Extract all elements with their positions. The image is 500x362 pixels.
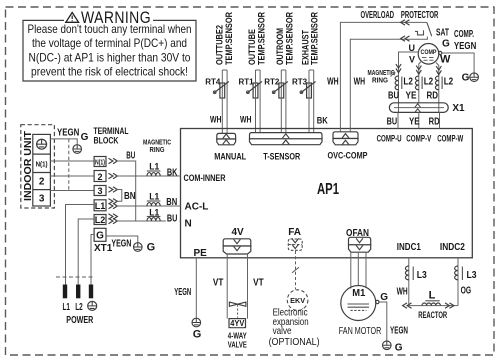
svg-text:G: G — [380, 292, 388, 303]
svg-text:G: G — [442, 38, 450, 49]
wire OVC to protector (bottom lead, WH) — [350, 37, 427, 132]
power lead ground — [89, 285, 93, 299]
wire dashed drop — [68, 139, 70, 191]
wire OVC to protector (top lead, WH) — [340, 22, 427, 131]
svg-text:2: 2 — [97, 172, 102, 182]
wire BU from N(1) — [116, 161, 136, 221]
svg-text:YEGN: YEGN — [390, 325, 408, 336]
junction chevrons XT1 L1 — [109, 199, 118, 204]
svg-text:COMP-W: COMP-W — [437, 134, 463, 144]
mainboard AP1 box — [181, 129, 473, 258]
svg-text:BLOCK: BLOCK — [94, 135, 119, 145]
svg-text:FA: FA — [288, 227, 301, 238]
wire dashed field boundary — [56, 276, 93, 278]
svg-text:PROTECTOR: PROTECTOR — [401, 10, 439, 21]
svg-text:X1: X1 — [452, 103, 465, 114]
svg-text:M1: M1 — [352, 288, 365, 299]
wire V phase (YE) — [419, 61, 422, 104]
svg-text:L2: L2 — [95, 215, 106, 225]
svg-text:N(DC-) at AP1 is higher than 3: N(DC-) at AP1 is higher than 30V to — [29, 51, 191, 65]
thermal protector SAT — [415, 22, 449, 38]
svg-text:4YV: 4YV — [230, 319, 245, 328]
svg-text:WH: WH — [397, 286, 408, 297]
svg-text:G: G — [193, 329, 202, 341]
svg-text:SAT: SAT — [436, 28, 449, 39]
ground (indoor YEGN) — [73, 145, 82, 154]
svg-text:(OPTIONAL): (OPTIONAL) — [269, 336, 320, 348]
svg-text:BU: BU — [126, 151, 135, 162]
thermistor RT4 — [220, 83, 225, 98]
wire XT1 G to ground — [106, 236, 138, 243]
svg-text:W: W — [440, 54, 451, 66]
svg-text:L2: L2 — [75, 302, 83, 313]
svg-text:BU: BU — [387, 116, 398, 127]
svg-text:BN: BN — [166, 197, 177, 208]
svg-text:RT2: RT2 — [264, 78, 280, 87]
svg-text:L1: L1 — [95, 201, 106, 211]
junction chevrons XT1 L2 — [109, 214, 118, 219]
wire BN bracket 3 to L1 — [116, 190, 122, 202]
sensor RT3 EXHAUST TEMP.SENSOR — [292, 12, 328, 133]
connector OFAN — [346, 228, 371, 252]
svg-text:N(1): N(1) — [36, 161, 48, 168]
wire X1 to AP1 (YE) — [418, 112, 420, 128]
wire indoor ground — [50, 139, 77, 144]
wire indoor 3 to XT1 — [50, 190, 94, 192]
ground (fan motor) — [383, 341, 392, 350]
wire INDC2 — [457, 258, 459, 306]
wire indoor 2 to XT1 — [50, 175, 94, 177]
wire G to power ground — [91, 235, 94, 285]
svg-text:AP1: AP1 — [317, 181, 339, 198]
svg-text:3: 3 — [97, 186, 102, 196]
inductor L1 (N wire) — [147, 207, 161, 221]
svg-text:TEMP.SENSOR: TEMP.SENSOR — [224, 12, 234, 65]
inductor L1 (COM wire) — [147, 161, 161, 176]
svg-text:WH: WH — [210, 115, 222, 125]
svg-text:AC-L: AC-L — [185, 201, 209, 212]
wire VT left rail — [226, 254, 228, 319]
svg-text:RD: RD — [429, 116, 440, 127]
svg-text:XT1: XT1 — [94, 243, 113, 254]
svg-text:YEGN: YEGN — [454, 41, 476, 52]
connector FA — [288, 227, 302, 250]
wire INDC1 — [408, 258, 410, 306]
svg-text:2: 2 — [39, 177, 45, 188]
reactor L — [403, 290, 454, 309]
svg-text:COMP.: COMP. — [454, 29, 474, 40]
svg-text:L2: L2 — [424, 77, 434, 88]
inductor L1 (AC-L wire) — [147, 191, 161, 206]
wire reactor bottom — [409, 305, 458, 307]
svg-text:G: G — [147, 242, 156, 254]
svg-text:L2: L2 — [444, 77, 454, 88]
warning triangle icon — [66, 9, 151, 27]
wire PE to ground — [195, 258, 197, 318]
wire indoor N(1) to XT1 — [50, 160, 94, 162]
sensor RT1 OUTTUBE TEMP.SENSOR — [238, 12, 266, 133]
svg-text:N(1): N(1) — [95, 159, 105, 166]
svg-text:the voltage of terminal P(DC+): the voltage of terminal P(DC+) and — [32, 36, 187, 50]
thermistor RT2 — [279, 83, 284, 98]
svg-text:L1: L1 — [63, 302, 71, 313]
svg-text:L2: L2 — [403, 77, 413, 88]
svg-text:VT: VT — [213, 277, 224, 288]
junction chevrons XT1 3 — [109, 187, 118, 192]
wire compressor ground YEGN — [442, 53, 474, 73]
power lead L1 — [63, 285, 67, 299]
svg-text:INDC1: INDC1 — [397, 242, 421, 253]
indoor unit dashed box — [21, 125, 55, 208]
ground mark (power) — [88, 301, 97, 310]
svg-text:L3: L3 — [417, 270, 427, 281]
svg-text:BN: BN — [124, 191, 136, 202]
ground (PE) — [192, 318, 201, 327]
svg-text:L1: L1 — [149, 191, 159, 201]
svg-text:YEGN: YEGN — [174, 287, 191, 298]
wire FA dashed — [295, 251, 297, 290]
wire label BU — [166, 213, 180, 224]
svg-text:3: 3 — [39, 194, 45, 205]
svg-text:BU: BU — [388, 90, 399, 101]
wire L1 to AC-L — [116, 205, 181, 207]
connector MANUAL — [214, 133, 246, 161]
compressor COMP — [418, 44, 442, 65]
svg-text:POWER: POWER — [66, 315, 94, 326]
svg-text:OG: OG — [461, 286, 472, 297]
svg-text:G: G — [81, 132, 89, 143]
svg-text:WH: WH — [240, 115, 252, 125]
svg-text:4V: 4V — [231, 227, 244, 238]
wire L2/N(1) to N — [116, 220, 181, 222]
junction chevrons XT1 2 — [109, 173, 118, 178]
coil box 4YV — [229, 319, 246, 328]
ground (XT1 G YEGN) — [134, 243, 143, 252]
ground G (compressor) — [470, 73, 479, 82]
svg-text:YEGN: YEGN — [57, 127, 79, 138]
wire W phase (RD) — [436, 63, 439, 113]
svg-text:EKV: EKV — [290, 296, 305, 305]
wire VT right rail — [247, 254, 249, 319]
svg-text:OVERLOAD: OVERLOAD — [361, 10, 395, 21]
svg-text:TEMP.SENSOR: TEMP.SENSOR — [256, 12, 266, 65]
svg-text:RING: RING — [372, 78, 389, 85]
valve coil symbol — [229, 302, 246, 306]
svg-text:REACTOR: REACTOR — [418, 310, 447, 320]
svg-text:VT: VT — [253, 277, 264, 288]
4-way valve 4YV — [213, 254, 264, 350]
svg-text:G: G — [395, 343, 403, 354]
svg-text:TEMP.SENSOR: TEMP.SENSOR — [310, 12, 320, 65]
svg-text:RT4: RT4 — [205, 78, 221, 87]
svg-text:YEGN: YEGN — [111, 238, 131, 249]
svg-text:RING: RING — [150, 147, 165, 154]
sensor RT2 OUTROOM TEMP.SENSOR — [264, 12, 294, 133]
svg-text:L1: L1 — [149, 161, 159, 171]
svg-text:YE: YE — [406, 90, 417, 101]
wire OFAN to motor x3 — [351, 252, 366, 288]
inductor L3 (INDC2) — [455, 266, 477, 281]
wire U phase (BU) — [399, 52, 419, 112]
svg-text:COMP: COMP — [421, 49, 437, 56]
svg-text:COM-INNER: COM-INNER — [184, 173, 226, 183]
svg-text:BK: BK — [317, 116, 328, 126]
svg-text:COMP-V: COMP-V — [406, 134, 431, 144]
svg-text:WH: WH — [354, 77, 366, 88]
svg-text:COMP-U: COMP-U — [377, 134, 402, 144]
connector OVC-COMP — [328, 132, 368, 161]
inductor L3 (INDC1) — [405, 266, 427, 281]
svg-text:G: G — [462, 73, 470, 84]
svg-text:RD: RD — [427, 90, 439, 101]
svg-text:T-SENSOR: T-SENSOR — [263, 151, 300, 161]
svg-text:MAGNETIC: MAGNETIC — [143, 140, 171, 147]
connector 4V — [223, 227, 251, 254]
svg-text:4-WAY: 4-WAY — [228, 332, 248, 341]
svg-text:L3: L3 — [467, 270, 477, 281]
thermistor RT1 — [253, 83, 258, 98]
connector X1 — [389, 103, 465, 114]
inductor L2 (U) — [395, 76, 413, 90]
indoor terminal strip — [33, 134, 51, 206]
svg-text:G: G — [96, 230, 104, 241]
thermistor RT3 — [307, 83, 312, 98]
wire L1 to power — [66, 205, 95, 285]
wire 2 to COM-INNER — [116, 175, 181, 177]
svg-text:RT3: RT3 — [292, 78, 308, 87]
svg-text:WH: WH — [327, 77, 339, 88]
svg-text:N: N — [185, 219, 192, 230]
svg-text:L1: L1 — [149, 207, 159, 217]
svg-text:MANUAL: MANUAL — [214, 151, 246, 161]
svg-text:OVC-COMP: OVC-COMP — [328, 151, 368, 161]
svg-text:BU: BU — [167, 213, 178, 224]
warning box — [23, 20, 196, 81]
svg-text:VALVE: VALVE — [228, 341, 247, 350]
svg-text:L: L — [429, 290, 436, 302]
svg-text:FAN MOTOR: FAN MOTOR — [339, 326, 382, 337]
svg-text:WARNING: WARNING — [81, 9, 151, 27]
wire X1 to AP1 (BU) — [397, 112, 399, 128]
terminal block XT1 — [94, 157, 113, 255]
sensor RT4 OUTTUBE2 TEMP.SENSOR — [205, 12, 234, 134]
svg-text:BK: BK — [167, 168, 178, 179]
wire L2 to power — [78, 219, 94, 285]
svg-text:YE: YE — [409, 116, 420, 127]
inductor L2 (V) — [415, 76, 433, 90]
wire X1 to AP1 (RD) — [439, 112, 441, 128]
connector T-SENSOR — [249, 133, 322, 162]
inductor L2 (W) — [435, 76, 453, 90]
fan motor M1 — [341, 286, 379, 321]
svg-text:prevent the risk of electrical: prevent the risk of electrical shock! — [31, 65, 188, 79]
wire motor ground YEGN — [379, 302, 387, 341]
svg-text:RT1: RT1 — [238, 78, 254, 87]
junction chevrons XT1 N(1) — [109, 158, 118, 163]
electronic expansion valve EKV — [287, 290, 308, 311]
power lead L2 — [76, 285, 80, 299]
svg-text:PE: PE — [194, 248, 208, 259]
svg-text:INDC2: INDC2 — [440, 242, 465, 253]
svg-text:TEMP.SENSOR: TEMP.SENSOR — [284, 12, 294, 65]
svg-text:V: V — [409, 55, 415, 65]
